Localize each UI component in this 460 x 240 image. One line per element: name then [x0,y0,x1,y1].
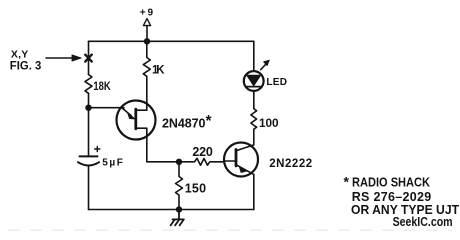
svg-text:LED: LED [266,77,287,88]
resistor R 1K [143,41,150,103]
capacitor C 5uF [78,146,100,165]
svg-text:+9: +9 [140,8,154,19]
wire bottom rail [89,209,254,211]
wire left column lower (capacitor to bottom rail) [88,166,90,210]
LED D1 [244,60,269,91]
junction dot node B (220/150 junction) [176,159,182,165]
junction dot at top rail and 1K branch [144,38,150,44]
resistor R 100 [251,108,257,145]
svg-text:150: 150 [185,181,206,195]
transistor Q2 2N2222 [224,143,258,177]
wire left column middle (18K to capacitor) [88,93,90,156]
junction dot at ground [176,206,182,212]
svg-text:1K: 1K [152,65,165,77]
wire left column upper [88,41,90,74]
junction dot at 18K / emitter node [85,105,91,111]
resistor R 150 [176,162,183,210]
wire top rail to LED anode [253,41,255,71]
ground [171,210,184,226]
scan artifact bottom edge line [8,229,452,231]
svg-text:*: * [344,173,350,189]
svg-text:2N2222: 2N2222 [269,158,312,170]
svg-text:RADIO SHACK: RADIO SHACK [352,176,430,190]
+9 supply terminal [143,19,150,42]
wire UJT base1 down and over to node B [147,137,179,162]
svg-text:RS 276–2029: RS 276–2029 [352,190,432,204]
node X input crossing mark [85,55,92,62]
wire 220 to Q2 base [224,160,236,162]
svg-text:100: 100 [259,116,279,130]
input arrow from X,Y FIG.3 [46,55,81,61]
wire LED cathode to 100 [253,91,255,108]
svg-text:2N4870: 2N4870 [162,117,205,131]
svg-text:220: 220 [192,145,212,159]
resistor R 220 [179,158,224,165]
wire Q2 emitter to bottom rail [253,174,255,209]
resistor R 18K [85,75,92,94]
svg-text:18K: 18K [93,79,111,93]
svg-text:FIG. 3: FIG. 3 [10,58,42,72]
svg-text:5µF: 5µF [102,157,123,168]
transistor U1 2N4870 UJT [117,101,156,140]
svg-text:SeekIC.com: SeekIC.com [393,215,453,229]
wire top rail [89,40,254,42]
svg-text:*: * [206,113,213,130]
wire emitter node to UJT [89,107,125,109]
